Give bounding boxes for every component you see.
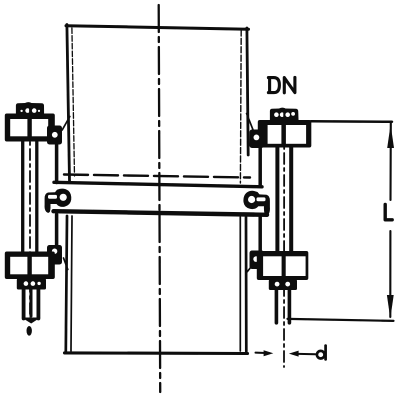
lower-left ear connector: [55, 215, 59, 246]
lower-right band diagonal: [247, 265, 253, 272]
gasket hook right: [243, 191, 270, 216]
sleeve bottom edge: [54, 211, 268, 215]
bolt U2 tip teardrop: [27, 326, 32, 336]
bolt U2 rod right wall: [37, 289, 41, 319]
bolt U2 collar nut: [17, 279, 46, 290]
top pipe left inner wall: [72, 28, 75, 176]
lower-right bolt assembly: [250, 251, 309, 291]
upper-right bolt assembly: [250, 108, 312, 148]
label L: [385, 205, 392, 220]
upper-right ear: [250, 130, 265, 149]
lower-right ear connector: [258, 215, 262, 251]
bolt U2 threaded tip taper: [22, 318, 41, 324]
upper-right band diagonal: [247, 114, 253, 130]
L leader upper: [389, 122, 391, 200]
bolt U1 upper lug block: [5, 114, 55, 142]
bottom pipe right inner wall: [239, 217, 241, 351]
top pipe top edge: [66, 26, 249, 30]
bolt U2 rod left wall: [22, 289, 26, 319]
upper-left bolt assembly: [5, 102, 62, 144]
sleeve top edge: [54, 182, 262, 187]
lower-right ear: [250, 251, 265, 270]
top pipe left outer wall: [67, 25, 70, 182]
lower-left bolt assembly: [5, 245, 62, 336]
bottom pipe bottom edge: [65, 351, 248, 355]
bottom pipe left outer wall: [66, 216, 67, 352]
left bolt shaft left wall: [21, 141, 24, 253]
right bolt shaft right wall: [289, 147, 293, 252]
left bolt centerline: [29, 105, 31, 320]
dimension L: [288, 121, 394, 321]
L arrow up: [387, 125, 394, 149]
right bolt shaft left wall: [275, 147, 279, 252]
top pipe right inner wall: [239, 30, 242, 183]
gasket hook left: [45, 189, 72, 213]
lower-left ear: [47, 245, 62, 265]
L bottom extension line: [288, 319, 394, 321]
bolt U4 lower lug block: [257, 251, 309, 280]
bottom pipe left inner wall: [71, 216, 72, 351]
bottom pipe right outer wall: [245, 217, 248, 352]
bolt U4 collar nut: [269, 280, 297, 291]
label DN: [268, 77, 295, 92]
left bolt shaft right wall: [35, 141, 38, 253]
bolt U3 top cap: [270, 108, 299, 122]
L leader lower: [389, 231, 391, 317]
label d: [317, 346, 326, 360]
bolt U2 lower lug block: [5, 252, 55, 280]
lower-left band diagonal: [64, 258, 68, 270]
L top extension line: [311, 120, 392, 123]
top pipe right outer wall: [247, 28, 248, 155]
upper-left ear: [47, 126, 62, 145]
d arrow left-pointing: [289, 351, 299, 357]
upper-left ear connector: [55, 144, 59, 183]
L arrow down: [387, 295, 394, 319]
right bolt centerline: [283, 109, 285, 367]
d arrow right-pointing: [264, 350, 274, 356]
d right leader: [293, 353, 316, 356]
d left leader: [256, 352, 270, 355]
bolt U4 rod right wall: [288, 290, 292, 323]
upper-left band diagonal: [62, 117, 70, 131]
centerline main vertical: [159, 5, 161, 392]
dimension d: [256, 353, 316, 355]
upper-right ear connector: [258, 148, 262, 186]
bolt U4 rod left wall: [275, 290, 279, 323]
top pipe end hidden line: [64, 175, 250, 178]
bolt U3 upper lug block: [258, 120, 312, 148]
bolt U2 rod core: [30, 289, 33, 316]
bolt U1 top cap: [16, 102, 44, 115]
